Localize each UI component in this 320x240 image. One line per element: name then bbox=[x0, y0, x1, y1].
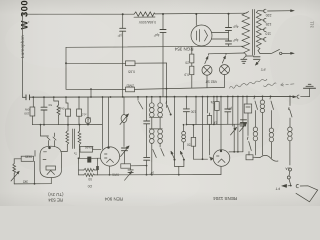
switch below T4 bbox=[151, 143, 153, 174]
column x=234 down bbox=[233, 124, 235, 152]
wire mains lead 1 with arrow bbox=[268, 10, 295, 12]
potentiometer R10 zigzag with arrow bbox=[13, 159, 15, 164]
wire cathode left drop bbox=[78, 158, 80, 175]
column x=237.9 bbox=[237, 97, 239, 152]
transformer secondary winding bbox=[256, 11, 261, 51]
wire rf rail y=124.4 bbox=[186, 123, 245, 125]
FT arrow bottom bbox=[275, 186, 280, 190]
tube RENS1204 bottom stem bbox=[220, 166, 222, 174]
resistor R17 box x=209.5 lower bbox=[207, 97, 209, 113]
wire grid rail y=89.3 bbox=[66, 88, 126, 90]
svg-text:FT: FT bbox=[260, 67, 265, 72]
svg-text:4µF: 4µF bbox=[154, 33, 160, 37]
resistor R9 box grid bbox=[21, 156, 33, 161]
terminal at bus right end bbox=[297, 95, 299, 98]
svg-text:220: 220 bbox=[266, 13, 272, 17]
wire heater rail y=47 bbox=[66, 46, 244, 47]
headphone V symbol bbox=[296, 186, 318, 202]
column x=247 trimmer box bbox=[246, 97, 248, 105]
wire x-marks to tube bbox=[48, 141, 50, 147]
capacitor C6 block (dark) bbox=[87, 157, 91, 163]
capacitor C-bus series bbox=[25, 95, 27, 100]
tube REN904 envelope bbox=[100, 147, 119, 166]
wire T2 primary bottom to RE534 grid bbox=[61, 146, 67, 152]
resistor R15 box x=193.4 bbox=[195, 97, 197, 125]
resistor R13 box (anode load) bbox=[80, 147, 93, 153]
wire long cathode line bbox=[95, 174, 222, 176]
wire T2 secondary bottom down bbox=[79, 146, 81, 158]
svg-text:x10: x10 bbox=[81, 113, 86, 117]
wire tube bottom stem bbox=[109, 166, 111, 175]
resistor R7 box x=68 bbox=[66, 97, 68, 109]
capacitor C11 small left bbox=[241, 119, 247, 121]
interstage transformer T2 core bbox=[72, 129, 74, 149]
switch arrow x=232.8 bbox=[232, 97, 234, 127]
wire main bus bbox=[23, 96, 27, 98]
paper speck bbox=[28, 21, 29, 22]
cathode net top wire bbox=[79, 157, 88, 159]
resistor R11 zigzag row1 bbox=[79, 169, 84, 171]
bus junction dots bbox=[32, 96, 291, 99]
tube RENS1204 grid dot bbox=[220, 150, 222, 152]
wire rectifier anode to top rail bbox=[195, 14, 197, 25]
coil T3 secondary upper bbox=[159, 97, 161, 103]
svg-text:20: 20 bbox=[185, 61, 189, 65]
capacitor C9 column x=186.4 bbox=[185, 97, 187, 109]
tap terminal 125 bbox=[264, 28, 266, 32]
wire heater/screen column x=66 bbox=[65, 47, 67, 89]
tube RGN354 envelope bbox=[191, 25, 212, 46]
resistor R14 box horizontal bbox=[121, 164, 131, 168]
wire lamp bottoms bbox=[206, 75, 208, 88]
capacitor C10 x=227.8 bbox=[227, 97, 229, 110]
earth symbol top right bbox=[308, 83, 311, 85]
coil T5 (third) bbox=[183, 124, 185, 126]
resistor R4 2M box bbox=[126, 87, 135, 92]
capacitor column x=146.5 upper cap bbox=[146, 97, 148, 121]
wire rectifier cathode leads to filter caps bbox=[212, 32, 229, 34]
capacitor C4 x=44 bbox=[43, 97, 45, 107]
coil T4 primary lower bbox=[150, 129, 155, 134]
dial lamp L2 bbox=[220, 65, 230, 75]
switch on col 247 bbox=[246, 137, 249, 140]
grid cap marks x x bbox=[47, 137, 50, 140]
svg-text:µF: µF bbox=[118, 34, 122, 38]
terminal circle bottom bbox=[296, 184, 298, 187]
wire cathode right drop bbox=[97, 158, 99, 166]
svg-text:RENS 1204: RENS 1204 bbox=[213, 196, 237, 201]
tube RE534 grid dashes bbox=[44, 151, 47, 153]
node on top rail x=163 bbox=[162, 13, 164, 15]
wire anode column x=102.5 bbox=[102, 97, 104, 149]
wire left vertical drop bbox=[22, 14, 24, 97]
resistor R6 zigzag x=58.5 bbox=[54, 97, 59, 105]
switch above lamp L2 bbox=[222, 56, 225, 63]
tube REN904 electrodes bbox=[105, 153, 108, 155]
terminals right column bbox=[289, 168, 292, 171]
grid arrow into tube bbox=[209, 140, 211, 155]
transformer primary winding bbox=[242, 12, 250, 55]
variable cap with arrow bbox=[121, 115, 127, 123]
tube REN904 grid top dot bbox=[107, 146, 109, 148]
switch above lamp L1 bbox=[205, 56, 208, 63]
page number 311 bbox=[310, 20, 315, 28]
wire screen rail to corner x=166.5 bbox=[135, 62, 167, 64]
column x=213.9 bbox=[213, 97, 215, 125]
node on top rail x=122.7 bbox=[122, 13, 124, 15]
switch S2 bbox=[183, 159, 185, 161]
interstage transformer T2 primary bbox=[67, 125, 69, 131]
capacitor C7 mini block bbox=[96, 166, 99, 170]
svg-text:3k5: 3k5 bbox=[23, 180, 28, 184]
grid bias network: vertical drop from AF rail bbox=[40, 125, 42, 136]
wires between coil pairs bbox=[150, 116, 163, 118]
resistor R3 0,65 box bbox=[126, 61, 136, 66]
wire output bottom rail bbox=[14, 183, 51, 185]
capacitor C-filter2 bbox=[226, 40, 232, 42]
svg-text:20k50: 20k50 bbox=[85, 145, 94, 149]
resistor R-lamp2 box bbox=[190, 66, 194, 75]
svg-text:4µF: 4µF bbox=[233, 25, 239, 29]
wire lamp resistor column bbox=[191, 46, 193, 54]
tube RENS1204 envelope bbox=[213, 150, 230, 167]
column x=254.5 switch+coil bbox=[253, 97, 256, 100]
title W 300 bbox=[19, 0, 30, 30]
wire top B+ rail left part bbox=[23, 13, 135, 15]
svg-text:2MΩ: 2MΩ bbox=[126, 84, 134, 88]
wire filter cap column bbox=[228, 14, 230, 28]
coil T3 primary upper bbox=[151, 97, 153, 103]
label RGN 354 bbox=[174, 46, 193, 51]
label Tr bbox=[73, 151, 77, 155]
wire plain column to S1 bbox=[174, 97, 176, 159]
capacitor column x=146.5 lower cap bbox=[144, 156, 150, 158]
resistor R12 zigzag row2 bbox=[79, 174, 84, 176]
column x=202.5 bbox=[202, 97, 204, 160]
label RENS 1204 bbox=[213, 196, 237, 201]
tube RE534 grid cap dot bbox=[48, 147, 51, 150]
svg-text:0,65A/100V: 0,65A/100V bbox=[138, 20, 156, 24]
label LA bbox=[285, 167, 290, 171]
wave trap curl bbox=[260, 155, 278, 161]
tube RE534 envelope (dome) bbox=[40, 146, 62, 177]
label RE 534 bbox=[48, 192, 64, 202]
switch mains bbox=[258, 51, 272, 54]
electrolytic C5 bbox=[87, 97, 89, 117]
capacitor C1 on branch bbox=[120, 27, 126, 29]
wire grid column x=110.5 bbox=[108, 97, 110, 147]
label lamp spec bbox=[204, 80, 217, 84]
svg-text:RGN 354: RGN 354 bbox=[174, 46, 193, 51]
switch S1 bbox=[174, 159, 176, 161]
tube RE534 filament bbox=[46, 166, 56, 170]
wire branch x=122.7 down to bus bbox=[122, 14, 124, 28]
svg-text:110: 110 bbox=[265, 32, 271, 36]
wire AF rail y=124.7 bbox=[32, 124, 102, 126]
resistor R5 box x=32 bbox=[32, 97, 34, 107]
wire screen rail y=63.3 bbox=[66, 62, 126, 64]
capacitor C-filter1 bbox=[226, 27, 232, 29]
detector coupling column x=124 bbox=[123, 97, 125, 115]
wire top B+ rail right part bbox=[155, 12, 246, 15]
column x=262.5 coil top bbox=[262, 96, 264, 100]
handwritten note bbox=[230, 79, 295, 88]
switch on screen column bbox=[165, 101, 168, 104]
column x=221 grid cap bbox=[220, 97, 222, 150]
tap terminal 220 bbox=[264, 18, 266, 22]
column x=290 switch+coil bbox=[289, 96, 291, 105]
resistor R-lamp1 box bbox=[190, 54, 194, 63]
capacitor C-mains below primary bbox=[245, 55, 247, 57]
capacitor C2 on branch bbox=[160, 29, 166, 31]
node x=91 drop to bus bbox=[90, 88, 92, 90]
wire grid rail to lamps bbox=[135, 87, 225, 89]
svg-text:0,9: 0,9 bbox=[184, 73, 189, 77]
arrow FT down bbox=[256, 61, 260, 66]
svg-text:125: 125 bbox=[266, 22, 272, 26]
tube RENS1204 electrodes bbox=[217, 155, 220, 157]
tube RGN354 anode plates bbox=[196, 31, 198, 40]
transformer core bbox=[251, 10, 253, 56]
svg-text:4µF: 4µF bbox=[233, 38, 239, 42]
resistor R16 box x=217 upper bbox=[216, 97, 218, 102]
coil T4 secondary lower bbox=[158, 129, 163, 134]
trimmer with arrow below bbox=[128, 169, 133, 171]
svg-text:µT: µT bbox=[87, 117, 91, 121]
interstage transformer T2 secondary bbox=[79, 125, 81, 131]
wire box column to bottom rail bbox=[34, 161, 36, 184]
wire switch commons to cathode line bbox=[175, 160, 184, 167]
column x=270.5 switch bbox=[269, 96, 272, 99]
dial lamp L1 bbox=[202, 65, 212, 75]
tap terminal 110 bbox=[264, 38, 266, 42]
resistor R8 box x=79 bbox=[78, 97, 80, 109]
earth symbol below primary bbox=[244, 56, 247, 59]
wire right columns to tube grid bbox=[229, 151, 243, 153]
tap terminal top bbox=[264, 9, 266, 13]
wire box to right bbox=[131, 165, 147, 167]
switch x=138 bbox=[137, 97, 139, 100]
wire lamps top rail to transformer bbox=[209, 52, 245, 55]
resistor R-mains 0,65A/100V zigzag bbox=[134, 12, 155, 16]
trimmer cap 2 with arrow bbox=[122, 147, 128, 149]
label REN 904 bbox=[104, 196, 123, 201]
svg-text:0,65: 0,65 bbox=[128, 69, 135, 73]
tube RGN354 filament bbox=[205, 30, 208, 41]
tube RE534 cathode stem bbox=[50, 178, 52, 184]
trimmer cap x=242.9 bbox=[242, 97, 244, 124]
wire branch x=163 down to bus bbox=[162, 14, 164, 30]
title Lumophon bbox=[20, 35, 26, 58]
